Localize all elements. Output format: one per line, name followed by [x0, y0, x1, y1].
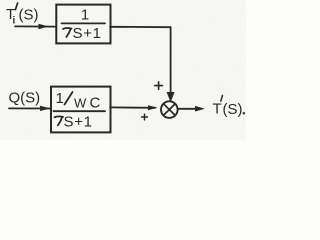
value label: tau of denominator G2	[55, 116, 64, 125]
wire vertical down to summer	[170, 27, 172, 91]
wire: Q(S) input arrow into G2	[9, 107, 51, 109]
prime mark on Ti	[15, 3, 17, 10]
wire from G1 to corner	[110, 26, 171, 28]
wire: Ti'(S) input arrow into G1	[15, 25, 56, 27]
fraction bar G1	[62, 22, 106, 24]
paper grain overlay	[0, 0, 246, 140]
value label: tau of denominator G1	[63, 28, 72, 37]
paper background	[0, 0, 246, 140]
summing junction circle	[161, 101, 178, 118]
plus sign (top input of summer)	[155, 82, 163, 90]
node Ti'(S) input label	[6, 6, 39, 27]
speck after output label	[243, 112, 246, 115]
summing junction X	[163, 104, 175, 116]
arrowhead into summer top	[167, 92, 175, 102]
output wire with arrow	[178, 108, 196, 110]
plus sign (left input of summer)	[142, 114, 148, 120]
wire from G2 to summer	[110, 106, 155, 108]
block G2: (1/WC)/(tauS+1)	[51, 87, 111, 133]
fraction bar G2	[54, 110, 106, 112]
block G1: 1/(tauS+1)	[56, 5, 110, 44]
